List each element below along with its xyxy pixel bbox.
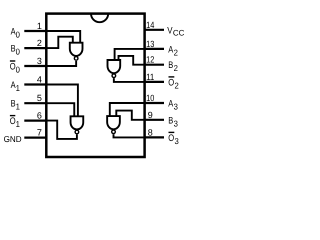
svg-text:2: 2 <box>37 38 42 48</box>
svg-text:O: O <box>168 77 174 88</box>
svg-text:2: 2 <box>174 63 179 73</box>
svg-text:9: 9 <box>148 110 153 120</box>
svg-text:0: 0 <box>16 47 21 57</box>
svg-text:O: O <box>168 133 174 144</box>
svg-text:3: 3 <box>175 136 180 146</box>
svg-text:0: 0 <box>16 30 21 40</box>
svg-text:4: 4 <box>37 75 42 85</box>
svg-text:11: 11 <box>146 72 154 82</box>
svg-text:GND: GND <box>4 134 22 144</box>
svg-text:6: 6 <box>37 111 42 121</box>
svg-text:2: 2 <box>174 47 179 57</box>
svg-text:B: B <box>168 115 173 126</box>
svg-text:1: 1 <box>37 21 42 31</box>
svg-text:8: 8 <box>148 127 153 137</box>
svg-text:1: 1 <box>16 119 21 129</box>
svg-text:B: B <box>168 60 173 71</box>
svg-text:10: 10 <box>146 93 154 103</box>
svg-text:1: 1 <box>16 102 21 112</box>
svg-text:12: 12 <box>146 55 154 65</box>
svg-text:5: 5 <box>37 93 42 103</box>
svg-text:14: 14 <box>146 20 154 30</box>
svg-text:2: 2 <box>175 80 180 90</box>
svg-text:CC: CC <box>173 29 185 38</box>
svg-text:1: 1 <box>16 83 21 93</box>
svg-text:0: 0 <box>16 65 21 75</box>
svg-text:3: 3 <box>37 56 42 66</box>
svg-text:7: 7 <box>37 128 42 138</box>
svg-text:13: 13 <box>146 39 154 49</box>
svg-text:3: 3 <box>174 118 179 128</box>
svg-text:3: 3 <box>174 102 179 112</box>
